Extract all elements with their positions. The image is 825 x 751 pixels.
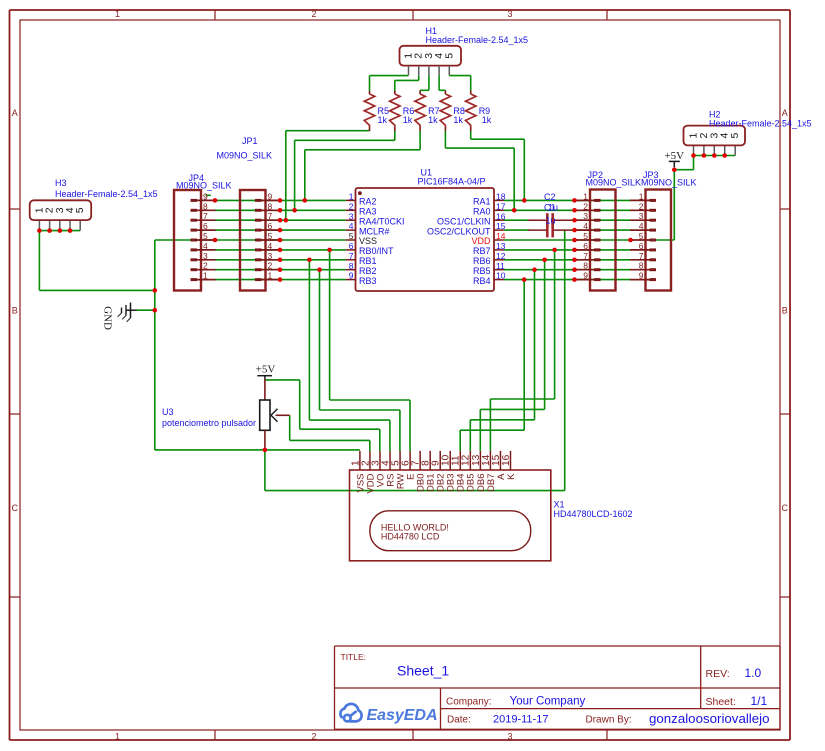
svg-text:5: 5 [583,231,588,241]
svg-text:VSS: VSS [359,236,377,246]
svg-text:6: 6 [268,221,273,231]
svg-text:1.0: 1.0 [745,666,762,680]
svg-text:9: 9 [268,191,273,201]
svg-text:K: K [506,473,517,480]
svg-text:6: 6 [583,241,588,251]
svg-text:5: 5 [729,133,741,139]
svg-text:4: 4 [583,221,588,231]
svg-text:7: 7 [203,211,208,221]
svg-text:OSC2/CLKOUT: OSC2/CLKOUT [427,226,491,236]
svg-text:3: 3 [507,732,512,742]
svg-text:U3: U3 [162,407,174,417]
svg-text:3: 3 [583,211,588,221]
svg-text:10: 10 [496,271,506,281]
svg-text:RB7: RB7 [473,246,491,256]
svg-text:1: 1 [115,9,120,19]
svg-text:8: 8 [639,261,644,271]
svg-text:14: 14 [496,231,506,241]
svg-text:5: 5 [639,231,644,241]
svg-text:8: 8 [349,261,354,271]
svg-text:1k: 1k [378,115,388,125]
svg-text:6: 6 [639,241,644,251]
svg-text:2: 2 [583,201,588,211]
svg-text:Date:: Date: [447,714,471,725]
svg-text:2: 2 [639,201,644,211]
svg-text:16: 16 [501,454,512,466]
svg-text:5: 5 [268,231,273,241]
svg-text:HD44780 LCD: HD44780 LCD [381,532,440,542]
svg-text:2019-11-17: 2019-11-17 [493,713,548,725]
svg-text:Company:: Company: [446,696,492,707]
svg-text:4: 4 [268,241,273,251]
svg-text:RB1: RB1 [359,256,377,266]
svg-text:1k: 1k [482,115,492,125]
svg-text:VDD: VDD [471,236,491,246]
svg-text:7: 7 [583,251,588,261]
svg-text:Header-Female-2.54_1x5: Header-Female-2.54_1x5 [426,35,529,45]
svg-text:8: 8 [268,201,273,211]
svg-text:+5V: +5V [664,150,684,162]
svg-text:1k: 1k [403,115,413,125]
svg-text:8: 8 [583,261,588,271]
svg-text:18: 18 [496,192,506,202]
svg-text:2: 2 [203,261,208,271]
svg-text:A: A [782,108,788,118]
svg-text:4: 4 [349,221,354,231]
svg-text:1: 1 [639,191,644,201]
svg-text:1k: 1k [453,115,463,125]
svg-text:6: 6 [349,241,354,251]
svg-text:8: 8 [203,201,208,211]
svg-text:9: 9 [349,271,354,281]
svg-text:RB6: RB6 [473,256,491,266]
svg-text:A: A [12,108,18,118]
svg-text:PIC16F84A-04/P: PIC16F84A-04/P [418,177,486,187]
svg-text:EasyEDA: EasyEDA [367,707,438,724]
svg-text:11: 11 [496,261,505,271]
svg-text:1k: 1k [428,115,438,125]
svg-text:3: 3 [349,211,354,221]
svg-text:5: 5 [349,231,354,241]
svg-text:Sheet:: Sheet: [706,696,736,708]
svg-text:C2: C2 [544,192,556,202]
svg-text:RA4/T0CKI: RA4/T0CKI [359,216,405,226]
svg-text:M09NO_SILK: M09NO_SILK [176,181,232,191]
svg-text:RB2: RB2 [359,266,377,276]
svg-text:2: 2 [311,9,316,19]
svg-text:17: 17 [496,201,506,211]
svg-text:1/1: 1/1 [751,694,768,708]
svg-text:RA1: RA1 [473,197,491,207]
svg-text:C: C [12,503,19,513]
svg-text:RA3: RA3 [359,207,377,217]
svg-text:15: 15 [496,221,506,231]
svg-text:Header-Female-2.54_1x5: Header-Female-2.54_1x5 [709,119,812,129]
svg-text:3: 3 [268,251,273,261]
svg-text:2: 2 [268,261,273,271]
svg-text:7: 7 [349,251,354,261]
svg-text:RA0: RA0 [473,207,491,217]
svg-text:5: 5 [443,53,455,59]
svg-text:1: 1 [268,271,273,281]
svg-text:Drawn By:: Drawn By: [586,714,632,725]
svg-text:GND: GND [102,306,114,330]
svg-text:TITLE:: TITLE: [341,652,367,662]
svg-text:1: 1 [583,191,588,201]
svg-text:4: 4 [203,241,208,251]
svg-text:9: 9 [583,271,588,281]
svg-text:HD44780LCD-1602: HD44780LCD-1602 [554,509,633,519]
svg-text:MCLR#: MCLR# [359,226,390,236]
svg-text:6: 6 [203,221,208,231]
svg-text:Sheet_1: Sheet_1 [397,663,449,679]
svg-text:1: 1 [203,271,208,281]
svg-text:1: 1 [115,732,120,742]
svg-text:RB3: RB3 [359,276,377,286]
svg-text:1: 1 [349,192,354,202]
svg-text:JP1: JP1 [242,136,258,146]
svg-text:X1: X1 [554,500,565,510]
svg-text:3: 3 [639,211,644,221]
svg-text:B: B [782,306,788,316]
svg-text:Header-Female-2.54_1x5: Header-Female-2.54_1x5 [55,189,158,199]
svg-text:M09NO_SILK: M09NO_SILK [217,151,273,161]
svg-text:RA2: RA2 [359,197,377,207]
svg-text:2: 2 [349,201,354,211]
svg-text:9: 9 [639,271,644,281]
svg-text:12: 12 [496,251,506,261]
svg-text:RB0/INT: RB0/INT [359,246,394,256]
svg-text:1u: 1u [546,216,556,226]
svg-text:Your Company: Your Company [510,695,586,707]
svg-text:4: 4 [639,221,644,231]
svg-text:gonzaloosoriovallejo: gonzaloosoriovallejo [649,711,770,726]
svg-text:16: 16 [496,211,506,221]
svg-text:C: C [782,503,789,513]
svg-text:7: 7 [268,211,273,221]
svg-text:OSC1/CLKIN: OSC1/CLKIN [437,216,491,226]
svg-text:+5V: +5V [256,364,276,376]
svg-text:H3: H3 [55,178,67,188]
svg-text:3: 3 [507,9,512,19]
svg-text:2: 2 [311,732,316,742]
svg-text:REV:: REV: [706,668,730,680]
svg-text:B: B [12,306,18,316]
svg-text:5: 5 [203,231,208,241]
svg-text:RB5: RB5 [473,266,491,276]
svg-text:M09NO_SILK: M09NO_SILK [641,177,697,187]
svg-text:RB4: RB4 [473,276,491,286]
svg-text:9: 9 [203,191,208,201]
svg-text:1u: 1u [548,203,558,213]
svg-text:potenciometro pulsador: potenciometro pulsador [162,418,256,428]
svg-text:7: 7 [639,251,644,261]
svg-text:3: 3 [203,251,208,261]
svg-text:13: 13 [496,241,506,251]
svg-text:5: 5 [74,207,86,213]
svg-text:M09NO_SILK: M09NO_SILK [586,177,642,187]
